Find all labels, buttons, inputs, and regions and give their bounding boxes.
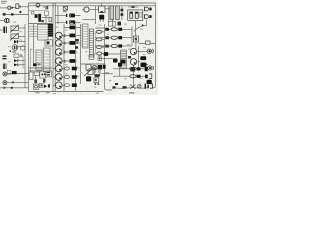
meter sub box b xyxy=(45,11,49,16)
capacitor C17 electrolytic xyxy=(141,63,147,68)
switch S2 cross xyxy=(130,85,136,89)
diode D8 xyxy=(137,75,141,78)
base ticks Q6 xyxy=(64,59,66,62)
wire row y73.5 xyxy=(7,73,29,75)
text smudge xyxy=(105,72,109,74)
dark tick right of K1 xyxy=(20,6,22,8)
resistor R2 band a xyxy=(121,9,124,12)
wire Q8 row xyxy=(53,76,64,78)
wire y17.3 xyxy=(42,16,49,18)
bus vertical x138.5 xyxy=(138,46,140,70)
transistor Q3 xyxy=(56,32,63,39)
wire D1 to bus xyxy=(18,41,25,43)
T5 rungs xyxy=(121,52,127,66)
IC U3 pin ladder xyxy=(48,24,53,37)
capacitor C13 xyxy=(104,52,109,56)
IC U6 ladder box xyxy=(83,24,89,48)
transistor Q11 xyxy=(130,59,136,65)
bus vertical x119.5 bottom xyxy=(119,64,121,76)
transistor Q2 circle xyxy=(21,46,25,50)
capacitor C6 circle xyxy=(12,45,18,51)
box with circle xyxy=(33,84,38,89)
filter box on J2 row xyxy=(7,70,11,74)
jack bracket b2 xyxy=(149,74,152,79)
jack P2 xyxy=(144,15,148,19)
label under C6 xyxy=(12,51,16,53)
relay K4 box xyxy=(133,36,138,42)
fuse F2 tick xyxy=(123,86,127,88)
wire row2 xyxy=(96,38,112,40)
caption text below xyxy=(129,92,135,94)
resistor RL4 oval xyxy=(97,52,102,55)
transformer T5 winding xyxy=(121,50,127,68)
capacitor C16 xyxy=(121,60,126,64)
transistor Q9 xyxy=(56,82,63,89)
wire row b1 right xyxy=(141,68,145,70)
wire VR1 to bus xyxy=(19,27,26,29)
wire row3 xyxy=(96,46,112,47)
jack P1 xyxy=(144,7,148,11)
caption text below border xyxy=(36,92,40,94)
crystal box X2 xyxy=(63,6,67,10)
crystal X1 box xyxy=(94,68,100,74)
wire row1 left xyxy=(96,28,105,32)
wire D3 to bus xyxy=(18,64,25,66)
capacitor C3 lead bar xyxy=(66,14,67,17)
base ticks Q3 xyxy=(64,33,66,36)
wire C8 out xyxy=(75,60,77,62)
battery B1 xyxy=(145,84,146,89)
fuse F1 tick xyxy=(113,86,116,88)
transistor Q1 body xyxy=(99,15,104,20)
wire input y7.8 xyxy=(0,7,8,9)
relay K2 box xyxy=(99,6,105,12)
resistor R11 oval xyxy=(92,66,97,70)
diode under transformer xyxy=(118,22,122,26)
VR3 arrow xyxy=(84,68,94,77)
tube box U2 xyxy=(128,10,143,21)
diode D7 xyxy=(137,67,141,70)
bus vertical pair x52 x54.3 xyxy=(53,3,55,92)
frame right border xyxy=(152,3,155,88)
capacitor C19 electrolytic xyxy=(147,80,152,84)
tick mark xyxy=(115,83,118,85)
wire row3 to x132 xyxy=(122,45,132,47)
resistor R7 oval xyxy=(111,36,117,39)
K2 bottom tab xyxy=(101,11,103,13)
inline comp on x35.5 xyxy=(34,79,37,83)
C18 leads xyxy=(95,83,97,85)
capacitor C2a dark square xyxy=(35,14,38,18)
wire y10.5 xyxy=(29,10,44,12)
text smudge column xyxy=(62,46,64,55)
box K5a xyxy=(34,72,39,76)
bus vertical x58 top xyxy=(57,6,59,24)
bus vertical x95.5 top xyxy=(95,6,97,24)
resistor RL2 oval xyxy=(96,38,102,41)
resistor R6 oval xyxy=(111,28,117,31)
wire row y87.8 xyxy=(0,87,29,89)
capacitor C5 polarized xyxy=(3,27,5,34)
connector J3 xyxy=(3,81,7,85)
resistor R1 tick xyxy=(42,20,44,22)
resistor R14 oval xyxy=(130,75,136,78)
Q1 leads xyxy=(100,20,103,23)
wire Q7 row xyxy=(53,68,64,70)
diagonal wire to jack feed xyxy=(134,25,147,31)
wire row y82.7 xyxy=(7,82,29,84)
frame bottom border xyxy=(29,91,104,93)
node dot J1 xyxy=(11,7,13,9)
capacitor C9 xyxy=(72,67,77,71)
capacitor C7 xyxy=(70,50,76,54)
resistor r9a oval xyxy=(65,84,70,87)
vertical x30.5 segment xyxy=(30,48,32,72)
IC U6 rungs xyxy=(83,27,89,47)
diode D2 xyxy=(14,59,18,62)
ferrite dark on J2 row xyxy=(12,71,17,74)
switch S1 contact a xyxy=(3,13,6,16)
text smudge a xyxy=(77,67,79,68)
IC U4 rungs xyxy=(36,53,42,68)
bus horizontal y23.5 xyxy=(29,23,53,25)
capacitor C4 electrolytic xyxy=(69,20,75,24)
wire C17 links xyxy=(137,62,148,65)
wire C14 left xyxy=(101,58,113,60)
frame second rail xyxy=(29,5,156,7)
wire D2 to bus xyxy=(18,60,25,62)
capacitor C20 xyxy=(140,56,146,60)
wire lamp to K2 xyxy=(89,9,99,11)
capacitor C11 xyxy=(72,83,77,87)
IC U3 box xyxy=(38,24,49,40)
text label top-left xyxy=(1,1,7,2)
capacitor C3 electrolytic xyxy=(69,14,75,18)
wire Q5 row xyxy=(55,51,69,53)
wire C13 left xyxy=(102,53,104,55)
meter M1 dial xyxy=(36,3,40,7)
dark mark in sub box xyxy=(47,41,50,44)
bus vertical x75.5 xyxy=(75,24,77,91)
resistor R8 oval xyxy=(111,44,117,47)
box K5c with bars xyxy=(46,71,51,77)
diode D11 xyxy=(145,75,148,79)
arrow mark xyxy=(4,87,7,89)
wires caps right xyxy=(75,16,81,23)
bus vertical x132 xyxy=(131,27,133,47)
box K5b with contacts xyxy=(40,71,46,78)
wire y74.5 xyxy=(105,73,113,75)
connector J1b xyxy=(0,20,4,22)
bus vertical x133.5 bottom xyxy=(133,65,135,87)
capacitor C18 box xyxy=(94,78,99,83)
diode D10 left xyxy=(118,63,122,67)
potentiometer VR1 xyxy=(11,26,19,31)
IC U5 rungs xyxy=(44,51,51,69)
connector J1 xyxy=(8,6,11,9)
X2 lead marks xyxy=(63,11,67,12)
wire row b2 xyxy=(113,75,130,77)
wire C7 out xyxy=(75,51,77,53)
wire D4 out xyxy=(75,35,80,37)
wire C13 right xyxy=(108,53,120,55)
base ticks Q5 xyxy=(64,50,66,53)
sub box below U3 xyxy=(45,40,53,46)
transformer pin box xyxy=(108,22,115,27)
resistor r7a oval xyxy=(65,67,70,70)
jack J4 xyxy=(147,49,151,53)
fuse on rail xyxy=(132,6,135,8)
transformer T1 winding a xyxy=(110,6,114,20)
resistor R4b mark xyxy=(75,46,78,48)
wire J1 to K1 xyxy=(13,7,16,9)
vertical x23 segment xyxy=(22,56,24,69)
lamp LA1 xyxy=(84,7,89,12)
wire Q3 row xyxy=(55,35,69,37)
diode cluster xyxy=(44,85,47,89)
diode D4b top row xyxy=(70,26,76,30)
K4 mark xyxy=(135,38,137,41)
coil L1 cap xyxy=(130,12,132,14)
IC U6 left pin ticks xyxy=(81,26,83,46)
capacitor C15 xyxy=(98,65,102,69)
base ticks Q4 xyxy=(64,41,66,44)
diode D9 xyxy=(145,67,148,71)
transistor Q8 xyxy=(56,74,63,81)
frame top rail xyxy=(29,2,156,4)
IC U4 box xyxy=(36,50,42,70)
transistor Q6 xyxy=(56,58,63,65)
wire row2 to x132 xyxy=(122,37,132,39)
diode DR1 xyxy=(118,28,122,31)
box U8 xyxy=(86,64,91,70)
resistor RL3 oval xyxy=(96,46,102,49)
resistor R2 vertical lead xyxy=(121,6,123,20)
wire X1 to bus xyxy=(102,73,105,75)
bottom squiggle wire xyxy=(112,87,148,90)
wire Q9 row xyxy=(53,84,64,86)
vertical x35.5 lower xyxy=(36,76,45,85)
dark blob under U4 xyxy=(33,63,37,66)
node dot below K1 xyxy=(19,11,21,13)
diode DR3 xyxy=(118,44,122,47)
bus vertical x135.5 xyxy=(135,21,137,49)
wire input y14.5 xyxy=(2,14,29,16)
wire y70.9 xyxy=(29,70,44,72)
jack bracket xyxy=(150,84,153,88)
wire y68 xyxy=(29,67,53,69)
bus vertical x70 top xyxy=(66,6,68,8)
connector J2 xyxy=(3,72,7,76)
IC U7 second column xyxy=(94,33,96,54)
bus vertical x80.5 xyxy=(80,24,82,84)
wire Q10 right xyxy=(137,51,147,53)
wire Q6 row xyxy=(55,60,69,62)
fuse box xyxy=(146,41,151,44)
transistor Q4 xyxy=(56,40,63,47)
bus vertical x64 xyxy=(63,24,65,91)
K2 top lead xyxy=(101,3,103,6)
bus vertical x33.5 xyxy=(33,24,35,65)
resistor R4 mark xyxy=(75,39,79,42)
small box y12 xyxy=(31,12,34,15)
wire row1 right xyxy=(105,28,112,30)
wire K1 to frame xyxy=(22,6,29,8)
capacitor C14 xyxy=(113,59,118,63)
tick on J3 row xyxy=(12,81,14,83)
coil L2 xyxy=(135,12,138,18)
relay contact circle xyxy=(138,85,142,89)
wire lamp left xyxy=(82,9,84,11)
IC U3 internal lines xyxy=(38,27,49,37)
bus vertical x104.5 with bottom corner xyxy=(105,24,113,90)
crystal X1 bar xyxy=(95,75,100,77)
relay K1 box xyxy=(16,4,19,9)
relay K3 box xyxy=(29,72,33,80)
wire y43.5 xyxy=(138,43,155,45)
IC U7 winding column xyxy=(90,29,94,57)
resistor R13 oval xyxy=(130,67,136,70)
trimmer component xyxy=(14,54,19,58)
transistor Q10 xyxy=(130,48,136,54)
potentiometer VR2 xyxy=(11,34,19,39)
diode DM1 xyxy=(105,28,109,31)
wire cap input xyxy=(0,29,3,31)
pin wires from bus xyxy=(29,27,38,37)
small square with dot xyxy=(98,57,101,60)
resistor r8a oval xyxy=(65,76,70,79)
wire row b2 right xyxy=(141,75,146,77)
coil L2 cap xyxy=(136,12,138,14)
wire below meter xyxy=(45,16,47,24)
wire y64 xyxy=(81,63,105,65)
node dot D5 out xyxy=(76,42,78,44)
diode D3 xyxy=(14,63,18,66)
box with dot xyxy=(39,84,43,88)
jack P3 xyxy=(148,66,152,70)
wire row b1 xyxy=(113,68,130,70)
capacitor C6b far left xyxy=(3,56,7,57)
wire C6 to bus xyxy=(18,45,25,47)
resistor R12 mark xyxy=(128,56,131,59)
transistor Q7 xyxy=(56,65,63,72)
capacitor C10 xyxy=(72,75,77,79)
capacitor C8 xyxy=(70,59,76,63)
node dot left xyxy=(10,50,12,52)
node dot y87.8 xyxy=(11,87,13,89)
capacitor C6c far left lower xyxy=(3,64,5,70)
wire Q4 row xyxy=(55,42,69,44)
switch S1 contact b xyxy=(11,13,14,15)
label smudges xyxy=(8,22,146,95)
coil L1 xyxy=(130,12,133,18)
wire K2 to transformer xyxy=(105,6,110,22)
plus marks xyxy=(43,6,44,7)
switch box S3 on bus xyxy=(49,17,51,21)
resistor RL1 oval xyxy=(96,30,102,33)
inline comp on x44 xyxy=(43,79,45,83)
diode D5 xyxy=(70,41,76,45)
diode DM2 xyxy=(105,36,109,39)
transistor Q5 xyxy=(56,49,63,56)
resistor R2 band b xyxy=(121,13,124,16)
wire D5 out xyxy=(75,42,80,44)
diode DM3 xyxy=(105,45,109,48)
bus vertical x25 xyxy=(24,24,26,88)
gray tick under U5 xyxy=(38,63,41,65)
capacitor bars on x46 xyxy=(46,6,47,9)
capacitor C2b dark bar xyxy=(38,14,41,22)
frame left vertical xyxy=(28,3,30,92)
wire VR2 to bus xyxy=(19,36,26,38)
transformer T1 winding b xyxy=(116,6,120,20)
diode D1 xyxy=(14,40,17,43)
transistor Q12 body xyxy=(86,76,91,81)
diode DR2 xyxy=(118,36,122,39)
wire y19.5 xyxy=(83,19,96,21)
bus vertical x112.5 transformer xyxy=(112,20,114,27)
capacitor C4 lead bar xyxy=(66,21,67,24)
wire y20 left xyxy=(55,15,66,22)
IC U5 box xyxy=(44,48,51,72)
box under U7 xyxy=(89,55,94,60)
diode D4 xyxy=(70,34,76,38)
wire row1 to x132 xyxy=(122,28,132,30)
dark blob under Q11 xyxy=(131,68,136,72)
text smudge b xyxy=(77,76,79,77)
potentiometer VR3 box xyxy=(88,69,93,75)
capacitor C15b xyxy=(103,65,106,69)
coil L3 light xyxy=(140,12,142,17)
